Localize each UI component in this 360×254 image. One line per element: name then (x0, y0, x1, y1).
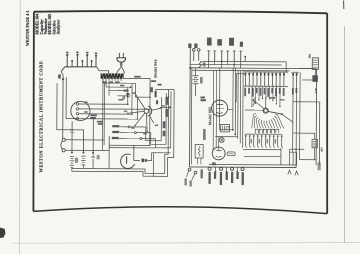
contact ladder circle 2 (134, 132, 136, 134)
battery B2 cells (81, 155, 85, 157)
ground terminal dot (62, 78, 64, 80)
component block X1 (312, 75, 317, 82)
svg-text:WESTON PAGE 4-1: WESTON PAGE 4-1 (26, 10, 30, 46)
tube pin label a (84, 102, 87, 104)
tube V1 pin 3 (76, 113, 78, 115)
resistor R1 tap ticks (102, 79, 104, 81)
battery B1 bottom lead (71, 167, 73, 171)
contact ladder wire 1 (120, 126, 128, 128)
label 45 blob (212, 162, 216, 165)
wire h128 (220, 129, 233, 131)
mesh wire h y96 (135, 96, 149, 98)
selector switch S3 rotor arm (268, 111, 282, 114)
wire switch to boundary (160, 106, 170, 108)
paper right edge artifact (344, 26, 346, 243)
jack branch drop (152, 153, 154, 176)
tube V1 right label (97, 121, 103, 123)
spring strip labels (251, 139, 253, 144)
switch upper feed wire (265, 96, 267, 108)
analyzer panel terminal labels (188, 43, 191, 48)
box bottom edge inner (209, 163, 296, 166)
right edge wire (315, 69, 318, 165)
contact ladder label 3 (112, 137, 119, 139)
stepped wire 3 to resistor bank (142, 91, 171, 148)
tube V2 grid dashes (216, 108, 217, 110)
ladder extra h3 (109, 90, 117, 92)
right bank label lowest (163, 131, 166, 137)
mesh wire v x128 (127, 87, 129, 104)
bottom lead v1 (289, 149, 291, 165)
wire middle line (109, 144, 150, 146)
multiplier chain to upper contact wires (251, 86, 253, 106)
switch S1 spoke W (128, 111, 144, 113)
wire h147 (290, 148, 304, 150)
selector wire to right (282, 114, 293, 125)
wire R1 to rectifier branch (123, 78, 150, 97)
box bottom right step (295, 148, 297, 167)
mesh wire v x132 (131, 83, 133, 114)
output box bottom edge (109, 147, 155, 149)
spoke tip label a (151, 87, 153, 92)
multiplier resistor chain rails (244, 71, 288, 73)
wire drop switch S2 (92, 118, 94, 152)
mesh wire v x150 lower (149, 97, 151, 145)
bias battery B4 top lead (314, 133, 316, 139)
R10 R11 labels (292, 88, 294, 95)
right bank label Res (165, 109, 168, 117)
fuse label (203, 63, 206, 67)
jack J1 (71, 61, 73, 66)
tube V3 side component (227, 152, 235, 156)
line cord split leads (117, 68, 121, 74)
meter shunt box M1 (312, 58, 318, 69)
svg-text:Analyzer: Analyzer (57, 19, 61, 34)
right mesh h y100 (293, 101, 320, 103)
switch S1 contact W (127, 113, 129, 115)
contact ladder label 2 (112, 131, 119, 133)
ground label blob (58, 74, 61, 78)
phone jack J4 frame bar (126, 156, 128, 163)
wire terminal row to resistor (97, 67, 109, 74)
battery B3 label (200, 77, 203, 84)
bottom lead v3 (296, 152, 298, 165)
schematic boundary inner line (72, 89, 169, 174)
bus corner drop to chain rail (285, 61, 287, 72)
long drop wire d3 (237, 71, 239, 139)
switch S1 spoke E from wiper (152, 108, 162, 110)
terminal leads diagonal (186, 171, 188, 177)
R10 R11 top wire (291, 71, 298, 73)
phone jack J4 body (121, 154, 135, 168)
pin jack upper (62, 138, 65, 141)
wire ladder v2 (105, 79, 107, 87)
terminal label blobs (66, 52, 68, 54)
long drop wire d4 (239, 71, 241, 144)
wire bus to meter box (300, 68, 313, 70)
tube V1 pin 1 (76, 103, 78, 105)
wire ladder corner v (135, 83, 137, 87)
jack branch wire up (147, 153, 170, 161)
box left edge inner double (190, 68, 193, 164)
series resistor R10 (292, 73, 294, 76)
left panel terminal lower 1 (188, 168, 191, 171)
lamp lead (221, 136, 223, 139)
multiplier resistor chain elements (245, 73, 247, 76)
range switch S1 wiper arc (147, 106, 151, 116)
wire h135 (215, 136, 237, 138)
right mesh h y131 (293, 132, 315, 134)
bottom mid label blob (200, 169, 202, 178)
junction dot B1 (71, 152, 73, 154)
rectifier tube V1 envelope (71, 101, 90, 120)
battery B1 cells (70, 155, 74, 157)
long drop wire d1 (232, 68, 234, 130)
bias battery B4 (312, 140, 318, 148)
contact ladder wire 3 (119, 138, 140, 140)
schematic boundary outer line (72, 89, 174, 177)
battery B3 cells (193, 75, 199, 77)
boundary tick x169 (168, 96, 170, 98)
lower left labels (184, 178, 186, 185)
wire V1 pin3 to switch mesh (79, 113, 132, 115)
tube V2 through wire (218, 68, 220, 130)
spoke tip label b (156, 100, 158, 104)
detector tube V3 envelope (212, 147, 225, 160)
right long wire r3 (299, 72, 302, 159)
left bus vertical wire (61, 72, 63, 139)
wire ladder v1 long drop (102, 79, 104, 151)
resistor R12 element (198, 147, 200, 157)
svg-text:WESTON ELECTRICAL INSTRUMENT C: WESTON ELECTRICAL INSTRUMENT CORP. (39, 60, 44, 173)
tube V3 top lead (218, 137, 220, 147)
tube V1 pin 2 (76, 108, 78, 110)
bottom aux dash terminals (215, 167, 217, 171)
contact ladder label 1 (112, 125, 119, 127)
binding post P1 (66, 55, 68, 66)
X1 lead wire (302, 79, 312, 81)
page border frame bottom edge (33, 207, 327, 214)
grid resistor diag (253, 98, 255, 106)
tube V3 internals (216, 150, 222, 152)
contact dot with lead (127, 95, 129, 97)
junction dot S2 (92, 152, 94, 154)
left inner rotated label (203, 129, 206, 140)
tube V2 side wire (228, 108, 233, 110)
selector switch S3 hub (263, 108, 268, 113)
contact ladder wire 2 (120, 132, 135, 134)
series resistor R11 (296, 73, 298, 76)
switch S1 spoke SE from wiper (149, 116, 154, 124)
box step right x317 bottom (300, 159, 316, 161)
page border frame top edge (34, 11, 327, 13)
tube pin label b (84, 111, 87, 113)
switch S1 contact SW (134, 125, 136, 127)
terminal strip base wire (61, 67, 97, 72)
pin jack lower (62, 149, 65, 152)
wire ladder v1b long drop (103, 83, 105, 145)
ladder contact dot2 (123, 97, 125, 99)
scanner blotch bottom left (0, 228, 5, 239)
coupling unit box (220, 124, 229, 131)
wire upper jack line (65, 139, 104, 141)
upper left label blob pair (90, 115, 97, 117)
wire h150 (290, 151, 296, 153)
left outer bus vertical (56, 83, 58, 130)
selector contact drops (252, 114, 254, 128)
baseline junction dots (221, 61, 223, 63)
panel base wire (202, 60, 286, 63)
jack shorting clip arc (61, 141, 63, 150)
output box left edge (108, 136, 110, 169)
ladder label blob b3 (126, 93, 130, 94)
jack drop wires (214, 61, 216, 64)
svg-text:45V: 45V (321, 147, 324, 152)
upper right wire label a (151, 80, 156, 82)
switch S2 bottom lead (92, 160, 94, 169)
label blob under ladder (118, 99, 123, 101)
upper labels near switch (269, 97, 275, 99)
bottom terminal row under box (208, 167, 211, 170)
wire V1 pin4 to switch mesh (66, 118, 137, 120)
selector switch S3 contact fan (253, 113, 255, 116)
switch S2 label (97, 155, 100, 160)
right bank label Cap (165, 97, 168, 105)
tube V2 cathode (217, 112, 223, 113)
box top edge (190, 67, 316, 70)
right outer wire (318, 102, 320, 165)
page border frame left edge (32, 12, 35, 212)
contact ladder circle 3 (140, 138, 142, 140)
binding post P3 (86, 56, 88, 67)
ballast resistor R1 (line resistor) (101, 73, 124, 78)
contact ladder circle 1 (128, 126, 130, 128)
selector hub left feed wire (245, 109, 263, 111)
panel terminal T1 (192, 49, 195, 52)
page border frame right edge (326, 13, 328, 213)
switch S1 contact labels (133, 92, 136, 94)
switch upper diagonal (252, 99, 264, 108)
multiplier chain value labels (244, 88, 246, 97)
phone jack J4 tip wire (134, 145, 140, 160)
bottom bus drop vertical (280, 148, 282, 165)
wire ladder h2 (106, 86, 130, 88)
wire ladder h1 (103, 82, 135, 84)
wire chassis drop x66 (65, 77, 67, 118)
battery B1 label (75, 158, 78, 163)
panel terminal T2 (197, 49, 200, 52)
capacitor C1 blob (124, 90, 129, 92)
AC line plug prongs (118, 53, 120, 58)
panel jack row (208, 51, 210, 62)
selector rotor tip (281, 113, 283, 115)
battery B3 wires (195, 68, 197, 76)
ladder extra v3 (108, 83, 110, 96)
long drop wire d5 (242, 71, 244, 148)
tube V2 envelope (212, 100, 228, 116)
bottom lead arrow ticks (288, 170, 291, 174)
svg-text:Model 664: Model 664 (154, 59, 158, 77)
AC line plug body (117, 57, 126, 59)
switch S1 contact NW (135, 95, 137, 97)
junction dot left bus (189, 67, 191, 69)
pilot lamp L1 (219, 138, 224, 143)
mesh wire v x136b (134, 88, 136, 97)
resistor can R12 box (195, 144, 203, 158)
wire V1 pin2 to switch mesh (79, 108, 150, 110)
boundary label blob (154, 91, 156, 98)
inner vertical wire w214 (212, 70, 214, 150)
wire drop to battery B1 (71, 121, 73, 152)
upper right wire label b (158, 84, 162, 86)
switch S1 spoke S (145, 113, 148, 131)
ladder label blob b2 (120, 85, 124, 87)
bottom lead v2 (292, 152, 294, 165)
stepped wire 1 to resistor bank (130, 97, 161, 141)
right side small label (318, 162, 321, 170)
resistor R1 tap value labels (102, 81, 107, 83)
socket bus wire (245, 133, 282, 135)
left panel terminal lower 2 (194, 171, 197, 174)
phone jack plug symbol (141, 159, 144, 163)
bottom terminal name labels (208, 172, 210, 184)
twisted line cord (120, 63, 122, 68)
switch S1 spoke NW (136, 95, 145, 108)
battery B2 bottom lead (82, 165, 84, 169)
fuse F1 zigzag (199, 61, 201, 68)
wire V1 pin1 to switch mesh (79, 103, 128, 105)
internal wire y153 (244, 155, 281, 157)
junction dot B2 (82, 152, 84, 154)
switch S1 spoke SW (135, 113, 145, 126)
scanner mark top right (343, 1, 345, 10)
panel bus second (190, 63, 281, 66)
tube V1 pin 4 (76, 117, 78, 119)
mesh wire v x138 (136, 97, 138, 119)
junction dot ladder h2 (130, 86, 132, 88)
paper bottom edge artifact (12, 242, 360, 245)
right long wire r2 (295, 86, 297, 152)
switch S1 contact S (146, 131, 148, 133)
binding post P2 (76, 55, 78, 67)
right long wire r1 (292, 86, 294, 152)
tube V2 plate bar (216, 104, 223, 106)
box top inner bus (192, 69, 290, 72)
svg-text:Met.: Met. (308, 53, 311, 58)
meter box bottom lead (314, 69, 316, 75)
range switch S1 hub (144, 109, 149, 114)
switch S2 contact (92, 153, 94, 157)
long drop wire d2 (234, 68, 236, 134)
bottom bus double line (243, 148, 281, 150)
jack J3 (91, 61, 93, 66)
spring terminal strip (245, 135, 247, 137)
box bottom edge outer (190, 166, 296, 169)
jack J2 (81, 61, 83, 66)
can R12 bottom leads (197, 158, 199, 164)
right bank label lower (163, 121, 166, 128)
left terminal drop wire (189, 48, 192, 167)
wire lower jack line (65, 149, 109, 151)
extra pin jack (244, 57, 246, 61)
binding post P4 (95, 56, 97, 67)
label 45 two-line blob (200, 97, 205, 99)
boundary top connector (155, 88, 174, 90)
socket staple contacts (255, 129, 258, 133)
box left drops (208, 61, 210, 68)
paper left edge artifact (19, 0, 22, 254)
inner vertical wire w217 (215, 70, 217, 147)
label Rect. on wire (134, 76, 140, 78)
bias battery B4 bottom lead (314, 148, 316, 160)
chain rail left extension (236, 74, 245, 103)
wire bus to battery branch (57, 130, 84, 153)
stepped wire 2 to resistor bank (136, 93, 166, 144)
